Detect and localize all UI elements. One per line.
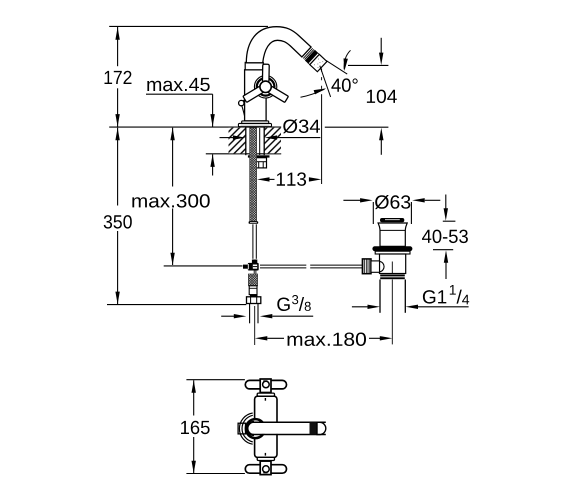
dimension 40-53	[422, 195, 468, 280]
drain cone	[378, 223, 407, 246]
faucet tailpipes	[250, 304, 258, 346]
pop-up rod	[164, 260, 363, 274]
top view: flange arcs	[239, 413, 252, 444]
threaded shank	[246, 127, 264, 155]
G 3/8 nut	[247, 297, 261, 304]
top view: spout tube	[247, 422, 325, 435]
adjustment knob	[362, 259, 384, 274]
spray angle 40 deg	[301, 50, 389, 184]
lower hose braid	[248, 274, 257, 297]
top view: wall stub	[238, 423, 245, 434]
handle cross (front view)	[243, 64, 289, 102]
deck bottom line	[206, 153, 281, 155]
drain body	[380, 254, 406, 274]
deck top line (right segment)	[325, 126, 389, 128]
dimension diameter 63	[343, 195, 440, 224]
top reference line	[109, 25, 268, 27]
mounting nut	[256, 158, 267, 168]
top view: lower cross handle	[245, 457, 286, 474]
spout	[246, 27, 311, 63]
drain flange	[375, 251, 410, 254]
supply hose braid	[249, 128, 259, 259]
dimension 113	[257, 172, 321, 186]
top view: body	[255, 396, 277, 457]
dimension 350	[104, 128, 247, 305]
dimension diameter 34	[220, 119, 321, 140]
dimension 165	[181, 380, 245, 474]
dimension G 3/8	[221, 295, 313, 318]
faucet base	[238, 121, 271, 127]
drain tailpipe	[380, 280, 405, 345]
drain dome cap	[380, 218, 404, 222]
faucet body	[245, 62, 267, 121]
drain collar	[380, 275, 405, 280]
deck top line (left segment)	[109, 126, 281, 128]
drain o-ring	[372, 246, 412, 251]
aerator tip	[303, 48, 327, 72]
dimension G 1 1/4	[352, 285, 469, 309]
dimension max.300	[132, 128, 209, 266]
top view: flange ring	[246, 419, 265, 438]
washer	[248, 155, 270, 157]
top view: upper cross handle	[245, 379, 286, 396]
dimension 104	[367, 38, 397, 155]
pop-up lever	[239, 100, 245, 116]
dimension 172	[105, 27, 132, 127]
dimension max.45	[146, 78, 215, 176]
deck hatch left block	[229, 128, 246, 154]
dimension max.180	[255, 333, 392, 347]
deck hatch right block	[264, 128, 281, 154]
